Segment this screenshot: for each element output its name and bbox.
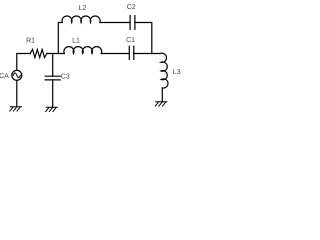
wire L3 to ground: [161, 88, 163, 102]
svg-text:C3: C3: [61, 74, 70, 81]
svg-text:L1: L1: [72, 37, 80, 44]
sine wave inside source: [13, 73, 20, 78]
node: L2 branch junction, wire up to upper rail: [58, 23, 62, 54]
capacitor C1: [129, 46, 134, 59]
wire L1 to C1 left plate (main rail right): [101, 53, 129, 55]
wire from source top up to main rail corner: [17, 54, 30, 71]
wire L2 to C2 (upper rail): [100, 22, 130, 24]
wire source to ground: [16, 80, 18, 107]
AC source CA: [12, 70, 22, 80]
svg-text:R1: R1: [26, 38, 35, 45]
inductor L2: [62, 16, 100, 23]
inductor L3: [152, 53, 168, 88]
capacitor C2: [130, 16, 135, 30]
resistor R1: [30, 50, 47, 58]
capacitor C3: [45, 76, 60, 80]
svg-text:C1: C1: [126, 37, 135, 44]
node: C3 branch junction, wire down: [52, 54, 54, 77]
svg-text:L2: L2: [79, 5, 87, 12]
wire R1 to L1 (main rail left): [47, 53, 64, 55]
wire C2 to top-right corner, down to main rail: [135, 23, 152, 54]
wire C3 to ground: [52, 80, 54, 107]
svg-text:C2: C2: [127, 4, 136, 11]
svg-text:CA: CA: [0, 73, 9, 80]
svg-text:L3: L3: [173, 69, 181, 76]
ground (below C3): [46, 107, 58, 111]
ground (below source): [10, 107, 22, 111]
wire C1 to L3 junction: [134, 53, 152, 55]
inductor L1: [64, 47, 102, 54]
ground (below L3): [155, 102, 167, 106]
